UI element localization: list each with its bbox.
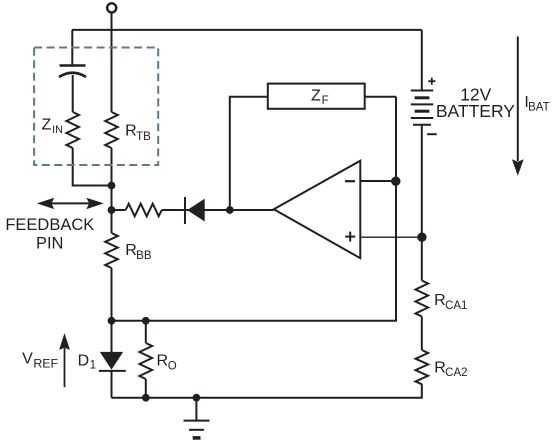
dashed box (Z_IN network)	[34, 48, 158, 166]
wire: top rail down to capacitor C top plate	[71, 30, 73, 65]
svg-text:RBB: RBB	[125, 242, 152, 262]
label op-amp minus	[345, 180, 355, 182]
label battery -	[427, 133, 437, 135]
diode (feedback, cathode left)	[185, 197, 205, 224]
resistor R_CA1	[415, 281, 428, 317]
wire: node F down to R_O	[145, 321, 147, 343]
resistor (feedback, horizontal)	[126, 204, 162, 217]
wire: D1 cathode to bottom rail	[111, 371, 113, 398]
wire: top rail from capacitor to battery +	[72, 29, 422, 31]
label op-amp plus	[345, 232, 355, 242]
svg-text:RCA2: RCA2	[434, 359, 467, 379]
wire: op-amp non-inverting input	[360, 236, 422, 238]
label battery +	[428, 78, 435, 85]
node B junction dot (feedback pin node)	[108, 206, 116, 214]
wire: capacitor to Z_IN top	[72, 75, 74, 112]
resistor R_BB	[105, 233, 118, 268]
wire: R_CA2 bottom to bottom rail	[112, 384, 422, 398]
resistor R_TB	[105, 112, 118, 148]
svg-text:RTB: RTB	[125, 123, 151, 143]
terminal circle (output pin)	[107, 3, 116, 12]
node D junction dot (inverting input)	[391, 177, 400, 186]
impedance box Z_F	[268, 84, 365, 109]
battery B1 (12V)	[411, 91, 433, 125]
wire: feedback resistor to diode to op-amp output	[162, 209, 274, 211]
wire: terminal to R_TB top	[111, 13, 113, 113]
svg-text:RCA1: RCA1	[434, 292, 467, 312]
svg-text:IBAT: IBAT	[524, 94, 549, 114]
resistor R_CA2	[415, 350, 428, 384]
node C2 junction dot (R_BB / D1 / R_O node)	[108, 317, 116, 325]
node F junction dot (R_O top)	[142, 317, 150, 325]
wire: battery + from top rail	[421, 30, 423, 91]
capacitor (in Z_IN branch)	[59, 66, 86, 78]
svg-text:D1: D1	[78, 352, 96, 371]
svg-text:VREF: VREF	[22, 350, 58, 370]
svg-text:FEEDBACK: FEEDBACK	[5, 216, 94, 234]
wire: Z_F right to inverting input line	[365, 96, 396, 98]
wire: node B to feedback resistor	[115, 209, 126, 211]
arrow: feedback pin double arrow	[37, 198, 104, 209]
ground	[184, 398, 210, 438]
svg-text:RO: RO	[157, 353, 177, 373]
node G junction dot (R_O bottom)	[142, 394, 150, 402]
svg-text:ZIN: ZIN	[42, 117, 63, 136]
wire: R_BB bottom to node C2	[111, 268, 113, 321]
wire: op-amp inverting input	[360, 180, 396, 182]
wire: inverting input vertical down and left to node C2	[112, 97, 397, 321]
wire: node C up to Z_F left	[230, 97, 268, 210]
node E junction dot (non-inverting input on battery minus rail)	[417, 233, 426, 242]
svg-text:BATTERY: BATTERY	[436, 101, 515, 121]
node H junction dot (ground tap)	[193, 394, 201, 402]
arrow: V_REF up arrow	[59, 333, 70, 387]
wire: R_TB bottom through node A to node B	[111, 148, 113, 233]
arrow: I_BAT current arrow	[512, 37, 524, 176]
resistor R_O	[140, 343, 153, 379]
node A junction dot	[108, 182, 116, 190]
svg-text:PIN: PIN	[36, 234, 64, 252]
wire: R_CA1 to R_CA2	[421, 317, 423, 351]
resistor Z_IN	[66, 112, 79, 148]
wire: Z_IN bottom to node A	[73, 148, 112, 186]
diode D1 (pointing down)	[99, 352, 126, 371]
wire: R_O bottom to bottom rail	[145, 379, 147, 398]
wire: battery - down through node E to R_CA1	[421, 125, 423, 281]
wire: node C2 down to diode D1	[111, 321, 113, 352]
op-amp U1	[274, 161, 361, 259]
node C junction dot (op-amp output node)	[226, 206, 234, 214]
